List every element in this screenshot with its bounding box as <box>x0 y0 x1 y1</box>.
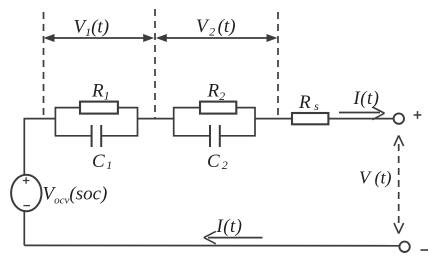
wire: source bottom to bottom rail <box>23 211 25 245</box>
R1 / C1 parallel loop frame <box>55 108 137 136</box>
current arrow I(t) bottom <box>204 231 263 243</box>
R2 / C2 parallel loop frame <box>174 108 255 136</box>
resistor Rs <box>292 113 328 124</box>
terminal - (bottom right) <box>399 242 409 252</box>
svg-text:V2(t): V2(t) <box>196 16 236 39</box>
resistor R2 <box>200 102 236 114</box>
V(t) dashed voltage arrow <box>394 136 404 234</box>
voltage source Vocv <box>11 175 41 211</box>
capacitor C2 <box>210 125 220 147</box>
wire: Rs to + terminal <box>328 118 393 120</box>
svg-text:C2: C2 <box>207 151 228 172</box>
plus sign at terminal <box>414 111 422 119</box>
svg-text:R2: R2 <box>207 81 226 104</box>
terminal + (top right) <box>394 113 404 123</box>
svg-text:V1(t): V1(t) <box>74 17 110 40</box>
source - sign <box>23 205 30 207</box>
wire: source top to R1 loop <box>24 119 55 175</box>
V1(t) measure arrow <box>44 34 155 42</box>
dashed guide line right x=278 <box>277 12 279 118</box>
capacitor C1 <box>92 125 102 147</box>
svg-text:C1: C1 <box>92 151 112 172</box>
current arrow I(t) top <box>339 107 385 120</box>
minus sign at terminal <box>421 249 429 251</box>
svg-text:Rs: Rs <box>298 92 319 113</box>
dashed guide line middle x=155 <box>154 9 156 118</box>
svg-text:Vocv(soc): Vocv(soc) <box>43 184 108 207</box>
bottom rail wire <box>24 244 399 246</box>
wire: R2 loop to Rs <box>255 118 292 120</box>
svg-text:V (t): V (t) <box>359 168 391 189</box>
resistor R1 <box>80 102 118 114</box>
dashed guide line left x=43 <box>43 12 45 118</box>
svg-text:I(t): I(t) <box>353 89 380 109</box>
source + sign <box>23 177 30 184</box>
wire: R1 loop to R2 loop <box>138 118 174 120</box>
svg-text:I(t): I(t) <box>216 217 243 237</box>
svg-text:R1: R1 <box>91 81 110 103</box>
V2(t) measure arrow <box>156 34 278 42</box>
